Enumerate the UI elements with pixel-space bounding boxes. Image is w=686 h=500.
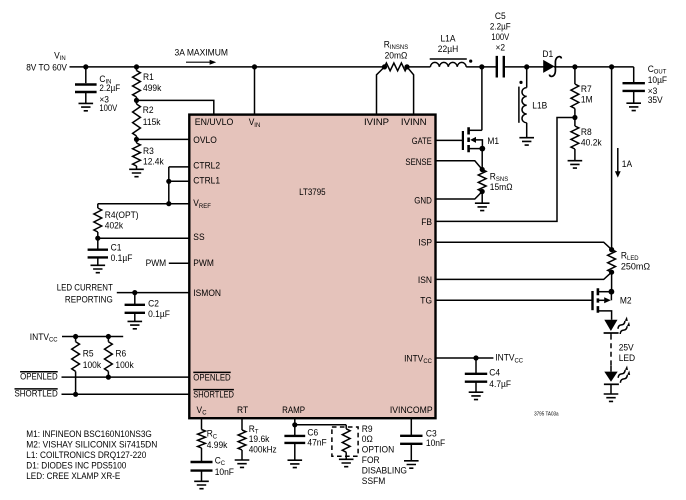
svg-text:SHORTLED: SHORTLED bbox=[193, 390, 234, 401]
ground below R8 bbox=[568, 161, 583, 168]
svg-text:ISP: ISP bbox=[418, 238, 432, 249]
ground below COUT bbox=[626, 103, 641, 110]
capacitor C2 0.1uF bbox=[134, 293, 136, 305]
junction R4-C1 SS tap bbox=[95, 236, 100, 241]
svg-text:R5: R5 bbox=[83, 349, 94, 360]
resistor R6 100k bbox=[107, 337, 109, 342]
svg-text:R3: R3 bbox=[143, 146, 154, 157]
svg-text:C4: C4 bbox=[489, 368, 500, 379]
junction R7 top on output bus bbox=[572, 64, 577, 69]
junction R7-R8 FB tap bbox=[572, 115, 577, 120]
svg-text:R2: R2 bbox=[143, 105, 154, 116]
svg-text:19.6k: 19.6k bbox=[249, 434, 270, 445]
svg-text:IN: IN bbox=[254, 122, 260, 129]
svg-text:2.2µF: 2.2µF bbox=[490, 21, 511, 32]
svg-text:R9: R9 bbox=[362, 424, 373, 435]
svg-text:GATE: GATE bbox=[412, 136, 432, 147]
svg-text:IVINP: IVINP bbox=[364, 117, 389, 128]
svg-text:RAMP: RAMP bbox=[282, 405, 305, 416]
svg-text:1A: 1A bbox=[622, 159, 633, 170]
wire M1 source to RSNS bbox=[481, 149, 483, 170]
ground below RSNS bbox=[475, 203, 490, 210]
wire RSNS to ground bbox=[481, 192, 483, 204]
wire INTVCC output bbox=[436, 357, 494, 359]
svg-text:4.7µF: 4.7µF bbox=[489, 379, 511, 390]
resistor RT 19.6k 400kHz bbox=[241, 418, 243, 430]
junction C4 tap bbox=[473, 355, 478, 360]
ground below LED string bbox=[604, 394, 619, 401]
svg-text:OPTION: OPTION bbox=[362, 445, 394, 456]
wire GND trace bbox=[436, 192, 483, 200]
svg-text:400kHz: 400kHz bbox=[249, 445, 277, 456]
junction VIN pin tap on bus bbox=[252, 64, 257, 69]
svg-text:C1: C1 bbox=[111, 243, 122, 254]
svg-text:M2: M2 bbox=[620, 295, 632, 306]
svg-text:100V: 100V bbox=[99, 103, 117, 114]
ground below L1B bbox=[519, 138, 534, 145]
resistor R3 12.4k bbox=[136, 139, 138, 143]
junction R1 top on VIN bus bbox=[134, 64, 139, 69]
svg-text:SENSE: SENSE bbox=[405, 157, 431, 168]
svg-text:M2: VISHAY SILICONIX Si7415DN: M2: VISHAY SILICONIX Si7415DN bbox=[26, 440, 157, 451]
svg-text:22µH: 22µH bbox=[438, 44, 458, 55]
LED D3 (bottom LED of string) bbox=[604, 372, 617, 382]
wire ISP trace bbox=[436, 242, 612, 249]
resistor R7 1M bbox=[574, 67, 576, 84]
junction VREF on jumper bbox=[166, 201, 171, 206]
junction RINSNS left / IVINP tap bbox=[382, 64, 387, 69]
wire CTRL2 pin stub bbox=[169, 166, 190, 168]
svg-text:0.1µF: 0.1µF bbox=[148, 309, 170, 320]
capacitor CIN 2.2uF x3 100V bbox=[75, 85, 97, 93]
svg-text:CC: CC bbox=[423, 358, 432, 365]
junction R6 bottom on OPENLED bbox=[106, 375, 111, 380]
capacitor COUT 10uF x3 35V bbox=[623, 83, 645, 91]
svg-text:L1: COILTRONICS DRQ127-220: L1: COILTRONICS DRQ127-220 bbox=[26, 450, 146, 461]
wire SENSE trace bbox=[436, 161, 483, 170]
svg-text:DISABLING: DISABLING bbox=[362, 465, 407, 476]
svg-text:D1: DIODES INC PDS5100: D1: DIODES INC PDS5100 bbox=[26, 461, 126, 472]
capacitor C5 2.2uF 100V x2 (coupling) bbox=[497, 56, 504, 78]
svg-text:R8: R8 bbox=[581, 127, 592, 138]
svg-text:100k: 100k bbox=[115, 360, 133, 371]
svg-text:8V TO 60V: 8V TO 60V bbox=[26, 62, 67, 73]
junction RSNS bottom / GND tap bbox=[480, 189, 485, 194]
svg-text:LED CURRENT: LED CURRENT bbox=[57, 282, 113, 293]
svg-text:INTV: INTV bbox=[30, 332, 50, 343]
svg-text:GND: GND bbox=[414, 195, 432, 206]
ground below C3 bbox=[404, 461, 419, 468]
resistor R2 115k bbox=[136, 100, 138, 104]
svg-text:LED: CREE XLAMP XR-E: LED: CREE XLAMP XR-E bbox=[26, 471, 120, 482]
wire RLED to M2 source bbox=[611, 272, 613, 292]
ground below C1 bbox=[91, 265, 106, 272]
ground below C6 bbox=[288, 460, 303, 467]
svg-text:LT3795: LT3795 bbox=[299, 187, 326, 198]
svg-text:PWM: PWM bbox=[193, 258, 214, 269]
svg-text:C2: C2 bbox=[148, 299, 159, 310]
svg-text:10nF: 10nF bbox=[426, 438, 445, 449]
svg-text:ISN: ISN bbox=[418, 275, 432, 286]
junction CTRL1 on jumper bbox=[166, 179, 171, 184]
ground below CIN bbox=[79, 103, 94, 110]
phase dot L1A bbox=[469, 60, 472, 63]
svg-text:100V: 100V bbox=[491, 32, 509, 43]
svg-text:IN: IN bbox=[60, 55, 66, 62]
svg-text:OPENLED: OPENLED bbox=[20, 371, 58, 382]
svg-text:12.4k: 12.4k bbox=[143, 156, 164, 167]
svg-text:C5: C5 bbox=[495, 11, 506, 22]
wire OVLO trace bbox=[137, 138, 190, 140]
svg-text:47nF: 47nF bbox=[307, 437, 326, 448]
phase dot L1B bbox=[519, 81, 522, 84]
wire VREF trace bbox=[98, 203, 190, 205]
svg-text:INTV: INTV bbox=[495, 353, 515, 364]
arrow 3A maximum direction bbox=[186, 61, 211, 63]
resistor R5 100k bbox=[75, 337, 77, 342]
junction R5 top bbox=[73, 334, 78, 339]
svg-text:C: C bbox=[202, 410, 206, 417]
capacitor C4 4.7uF bbox=[475, 358, 477, 374]
svg-text:250mΩ: 250mΩ bbox=[621, 261, 650, 272]
resistor RC 4.99k compensation bbox=[201, 418, 203, 429]
wire CIN top lead bbox=[85, 67, 87, 83]
svg-text:M1: INFINEON BSC160N10NS3G: M1: INFINEON BSC160N10NS3G bbox=[26, 429, 152, 440]
svg-text:115k: 115k bbox=[143, 117, 161, 128]
svg-text:PWM: PWM bbox=[146, 258, 167, 269]
wire OPENLED trace bbox=[62, 376, 190, 378]
resistor RLED 250mOhm bbox=[608, 250, 616, 273]
arrow 1A LED current bbox=[617, 148, 619, 172]
wire COUT top lead bbox=[633, 67, 635, 83]
transistor M1 N-channel MOSFET bbox=[436, 139, 463, 141]
wire RAMP pin drop bbox=[294, 418, 296, 425]
svg-text:R1: R1 bbox=[143, 72, 154, 83]
svg-text:0Ω: 0Ω bbox=[362, 434, 373, 445]
ground below R3 bbox=[129, 169, 144, 176]
resistor RINSNS 20mOhm input sense bbox=[385, 63, 408, 71]
junction RINSNS right / IVINN tap bbox=[404, 64, 409, 69]
capacitor C6 47nF bbox=[294, 425, 296, 436]
svg-text:3795 TA03a: 3795 TA03a bbox=[534, 411, 559, 417]
capacitor C3 10nF bbox=[410, 418, 412, 436]
junction C5 / L1B / D1 anode bbox=[524, 64, 529, 69]
junction L1A output / M1 drain / C5 bbox=[479, 64, 484, 69]
svg-text:15mΩ: 15mΩ bbox=[490, 182, 513, 193]
svg-text:INTV: INTV bbox=[404, 353, 424, 364]
svg-text:40.2k: 40.2k bbox=[581, 138, 602, 149]
svg-text:CTRL1: CTRL1 bbox=[193, 176, 220, 187]
svg-text:20mΩ: 20mΩ bbox=[385, 50, 408, 61]
svg-text:35V: 35V bbox=[648, 95, 664, 106]
junction C2 tap on ISMON bbox=[132, 290, 137, 295]
wire IVINP sense drop bbox=[377, 67, 385, 115]
svg-text:CC: CC bbox=[515, 357, 524, 364]
ground below C4 bbox=[469, 392, 484, 399]
svg-text:SSFM: SSFM bbox=[362, 476, 386, 487]
resistor R4 (OPT) 402k bbox=[97, 204, 99, 208]
svg-text:CC: CC bbox=[49, 337, 58, 344]
wire CTRL2-CTRL1-VREF jumper bbox=[168, 167, 170, 204]
wire EN/UVLO trace from divider to pin bbox=[137, 100, 214, 114]
svg-text:OPENLED: OPENLED bbox=[193, 373, 230, 384]
svg-text:1M: 1M bbox=[581, 94, 593, 105]
LED D2 (top LED of string) bbox=[604, 320, 617, 331]
resistor R1 499k bbox=[136, 67, 138, 71]
junction output rail tap bbox=[609, 64, 614, 69]
junction R2-R3 OVLO tap bbox=[134, 137, 139, 142]
svg-text:M1: M1 bbox=[487, 136, 499, 147]
svg-text:3A MAXIMUM: 3A MAXIMUM bbox=[175, 47, 229, 58]
junction R5 bottom on SHORTLED bbox=[73, 392, 78, 397]
capacitor C1 0.1uF bbox=[97, 238, 99, 250]
svg-text:REF: REF bbox=[199, 203, 211, 210]
wire FB trace bbox=[436, 118, 575, 222]
wire VIN input bus (top horizontal rail) bbox=[70, 66, 634, 68]
svg-text:25V: 25V bbox=[619, 343, 635, 354]
svg-text:EN/UVLO: EN/UVLO bbox=[195, 117, 234, 128]
wire SS trace bbox=[98, 237, 190, 239]
svg-text:OVLO: OVLO bbox=[193, 135, 217, 146]
diode D1 schottky PDS5100 bbox=[543, 60, 554, 73]
op-amp U1 LT3795 LED driver IC body bbox=[189, 115, 435, 419]
ground below R9 bbox=[339, 459, 354, 466]
svg-text:FOR: FOR bbox=[362, 455, 380, 466]
wire ISN trace bbox=[436, 272, 612, 279]
wire CTRL1 pin stub bbox=[169, 180, 190, 182]
svg-text:10nF: 10nF bbox=[215, 467, 234, 478]
wire LED string to ground bbox=[610, 384, 612, 394]
svg-text:R6: R6 bbox=[115, 349, 126, 360]
svg-text:LED: LED bbox=[619, 353, 635, 364]
ground below C2 bbox=[128, 321, 143, 328]
svg-text:499k: 499k bbox=[143, 83, 161, 94]
transistor M2 P-channel MOSFET bbox=[436, 299, 593, 301]
capacitor CC 10nF bbox=[191, 462, 213, 471]
ground below RT bbox=[235, 460, 250, 467]
svg-text:IVINN: IVINN bbox=[401, 117, 427, 128]
resistor RSNS 15mOhm bbox=[478, 170, 486, 192]
inductor L1B coupled winding bbox=[526, 67, 528, 88]
junction RAMP node bbox=[292, 422, 297, 427]
svg-text:RT: RT bbox=[237, 405, 248, 416]
svg-text:4.99k: 4.99k bbox=[207, 440, 228, 451]
svg-text:10µF: 10µF bbox=[648, 75, 668, 86]
wire RAMP to R9 bbox=[295, 424, 346, 426]
svg-text:402k: 402k bbox=[105, 220, 123, 231]
wire ISMON trace bbox=[117, 292, 190, 294]
svg-text:×2: ×2 bbox=[496, 43, 506, 54]
svg-text:100k: 100k bbox=[83, 360, 101, 371]
wire LED+ output rail down to RLED bbox=[611, 67, 613, 250]
wire PWM stub bbox=[169, 262, 190, 264]
resistor R9 0 Ohm optional bbox=[345, 425, 347, 429]
wire SHORTLED trace bbox=[62, 393, 190, 395]
junction M1 source node bbox=[479, 146, 485, 152]
wire dashed LED string (25V LED) bbox=[610, 333, 612, 335]
junction CIN tap on VIN bus bbox=[83, 64, 88, 69]
svg-text:L1B: L1B bbox=[532, 101, 547, 112]
resistor R8 40.2k bbox=[574, 118, 576, 127]
svg-text:2.2µF: 2.2µF bbox=[99, 83, 120, 94]
junction R6 top bbox=[106, 334, 111, 339]
junction RLED bottom bbox=[609, 270, 614, 275]
wire VIN pin drop bbox=[254, 67, 256, 115]
svg-text:CTRL2: CTRL2 bbox=[193, 161, 220, 172]
wire INTVCC pull-up rail bbox=[62, 336, 123, 338]
svg-text:SHORTLED: SHORTLED bbox=[15, 388, 58, 399]
svg-text:FB: FB bbox=[421, 217, 432, 228]
svg-text:SS: SS bbox=[193, 232, 204, 243]
inductor L1A 22uH bbox=[430, 58, 467, 60]
junction RSNS top / SENSE tap bbox=[480, 167, 485, 172]
svg-text:D1: D1 bbox=[542, 49, 553, 60]
ground below CC bbox=[194, 481, 209, 488]
svg-text:ISMON: ISMON bbox=[193, 288, 221, 299]
svg-text:L1A: L1A bbox=[441, 33, 457, 44]
junction M2 source tap bbox=[609, 289, 615, 295]
junction R1-R2 EN/UVLO tap bbox=[134, 98, 139, 103]
svg-text:REPORTING: REPORTING bbox=[65, 294, 113, 305]
dashed option box around R9 bbox=[332, 427, 358, 456]
wire IVINN sense drop bbox=[407, 67, 414, 115]
svg-text:IVINCOMP: IVINCOMP bbox=[390, 405, 433, 416]
svg-text:0.1µF: 0.1µF bbox=[111, 253, 133, 264]
junction RLED top bbox=[609, 247, 614, 252]
svg-text:TG: TG bbox=[420, 295, 432, 306]
